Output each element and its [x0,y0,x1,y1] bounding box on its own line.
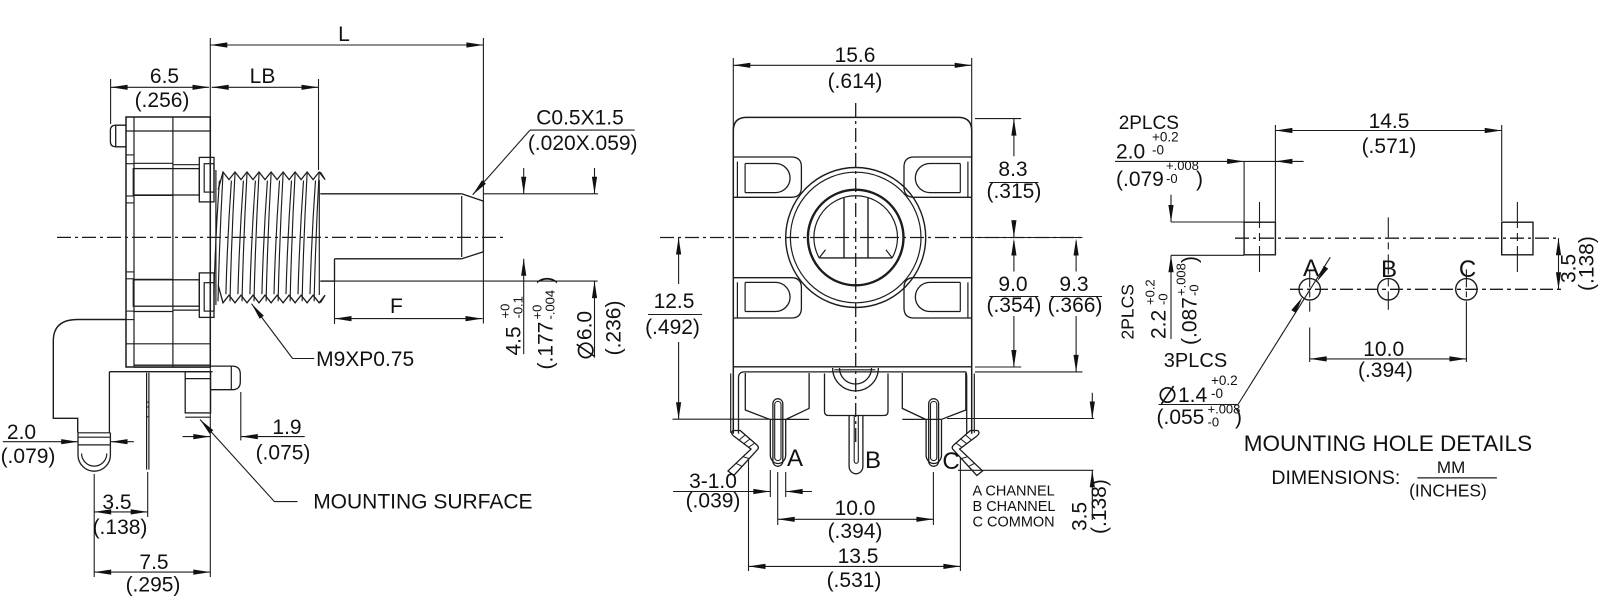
dimension 10.0 front [777,472,779,525]
pad row centerline [1235,237,1559,239]
side mounting tab [211,366,240,390]
side body rivet bump [110,125,126,147]
svg-text:): ) [1196,168,1203,191]
svg-text:(.531): (.531) [827,569,882,592]
svg-text:4.5: 4.5 [503,326,526,355]
window lower-right [904,278,971,318]
dimension 8.3 [975,118,1021,120]
svg-text:2.2: 2.2 [1148,310,1171,339]
svg-text:(.295): (.295) [126,574,181,597]
side view centerline [57,236,505,238]
svg-text:C: C [942,448,959,475]
pad left [1244,222,1275,255]
front view horizontal centerline [660,237,1085,239]
thread callout M9XP0.75 [252,304,293,359]
svg-text:8.3: 8.3 [998,158,1027,181]
svg-text:(.138): (.138) [1576,236,1598,291]
svg-text:(.571): (.571) [1362,135,1417,158]
svg-text:(.354): (.354) [986,294,1041,317]
terminal tab C [902,373,966,420]
bushing circle outer [786,168,926,308]
svg-text:9.0: 9.0 [998,273,1027,296]
svg-text:(.138): (.138) [93,516,148,539]
svg-text:F: F [390,295,403,318]
hole C crosshair [1465,269,1467,311]
svg-text:7.5: 7.5 [139,551,168,574]
center pin side [146,373,148,470]
svg-text:9.3: 9.3 [1059,273,1088,296]
svg-text:C: C [1459,256,1476,283]
svg-text:C COMMON: C COMMON [973,514,1055,530]
svg-text:MOUNTING HOLE DETAILS: MOUNTING HOLE DETAILS [1244,431,1532,456]
dimension 13.5 [748,458,750,571]
dimension F [334,262,336,324]
center tab [825,374,889,416]
bushing circle inner [790,172,921,303]
svg-text:(.394): (.394) [828,520,883,543]
svg-text:3PLCS: 3PLCS [1164,350,1227,372]
svg-text:B: B [1381,256,1397,283]
svg-text:B: B [865,447,881,474]
dimension dia 6.0 [483,193,598,195]
svg-text:(.020X.059): (.020X.059) [528,132,638,155]
svg-text:(.177: (.177 [535,322,558,370]
svg-text:(.079: (.079 [1116,168,1164,191]
dimension L [209,38,211,117]
svg-text:DIMENSIONS:: DIMENSIONS: [1271,467,1400,489]
svg-text:14.5: 14.5 [1369,110,1410,133]
svg-text:(.492): (.492) [645,316,700,339]
window lower-left [734,278,802,318]
svg-text:A CHANNEL: A CHANNEL [973,484,1055,500]
svg-text:1.4: 1.4 [1178,384,1208,407]
svg-text:13.5: 13.5 [838,545,879,568]
svg-text:(.087: (.087 [1179,297,1202,345]
front body outline [733,117,971,433]
dimension 4.5 with tolerance [523,168,525,194]
pin B [849,416,863,474]
pad right crosshair [1516,202,1518,273]
window upper-left [734,157,802,197]
chamfer callout C0.5X1.5 [473,130,530,195]
shaft outline [320,193,461,195]
threaded bushing M9 [218,172,325,190]
svg-text:(.614): (.614) [828,70,883,93]
svg-text:-0: -0 [1187,284,1202,296]
dimension 3-1.0 pins [769,470,771,497]
svg-text:(.079): (.079) [1,445,56,468]
dimension 2.2 pad [1171,221,1244,223]
dimension 10.0 holes [1309,328,1311,363]
svg-text:(.075): (.075) [256,442,311,465]
front body bottom line [733,366,971,368]
bent leg bracket [53,320,126,433]
svg-text:(.315): (.315) [986,180,1041,203]
svg-text:): ) [535,277,558,284]
svg-text:3.5: 3.5 [102,491,131,514]
svg-text:-0: -0 [1166,171,1178,186]
svg-text:L: L [338,23,350,46]
svg-text:A: A [787,445,803,472]
svg-text:2.0: 2.0 [7,421,36,444]
terminal block under body [134,364,211,366]
dimension 3.5 front [947,418,1094,420]
pcb standoff block [185,372,210,413]
hole A crosshair [1309,269,1311,311]
svg-text:(.138): (.138) [1088,479,1111,534]
svg-text:MM: MM [1437,458,1465,477]
window upper-right [904,157,971,197]
svg-text:-0: -0 [1152,143,1164,158]
shaft flat and slot [819,257,892,259]
dimension 14.5 [1501,125,1503,221]
dimension 12.5 [678,238,680,285]
svg-text:C0.5X1.5: C0.5X1.5 [536,107,624,130]
dimension 9.0 [975,366,1021,368]
side view body outline [126,117,210,367]
bent foot right [952,431,982,476]
svg-text:B CHANNEL: B CHANNEL [973,499,1056,515]
svg-text:(.039): (.039) [686,490,741,513]
svg-text:): ) [1235,406,1242,429]
upper clip [133,162,173,164]
dimension 9.3 [975,237,1083,239]
svg-text:-.004: -.004 [543,290,558,320]
svg-text:(.366): (.366) [1048,294,1103,317]
leg foot [78,432,110,434]
hole B [1378,279,1399,300]
pad left crosshair [1259,202,1261,273]
lower clip [133,311,173,313]
svg-text:): ) [1179,256,1202,263]
svg-text:15.6: 15.6 [835,44,876,67]
svg-text:10.0: 10.0 [1363,338,1404,361]
dimension 3.5 holes [1558,238,1560,289]
svg-text:(.256): (.256) [135,89,190,112]
svg-text:A: A [1303,255,1319,282]
svg-text:-0: -0 [1208,415,1220,430]
dimension 1.9 tab [240,392,242,440]
center arch [833,368,879,391]
svg-text:12.5: 12.5 [654,290,695,313]
svg-text:10.0: 10.0 [835,497,876,520]
hole row line [1290,288,1565,290]
dimension 3.5 pin [93,474,95,577]
dimension 7.5 [209,117,211,577]
svg-text:1.9: 1.9 [272,416,301,439]
front view vertical centerline [855,103,857,446]
dimension 15.6 [732,58,734,130]
dimension 2.0 foot [3,441,78,443]
bent foot left [728,431,758,476]
svg-text:(.055: (.055 [1157,406,1205,429]
mounting surface callout [200,420,298,502]
terminal tab A [745,373,809,420]
hole A [1299,279,1320,300]
hole C [1456,279,1477,300]
leg back edge [108,372,110,433]
shaft circle [808,190,904,286]
shaft chamfer circle [814,196,898,258]
svg-text:6.0: 6.0 [574,311,597,340]
svg-text:2.0: 2.0 [1116,141,1145,164]
svg-text:2PLCS: 2PLCS [1117,284,1137,339]
svg-text:(INCHES): (INCHES) [1409,481,1487,501]
svg-text:6.5: 6.5 [150,65,179,88]
pin A [773,399,783,467]
bushing face [215,170,217,305]
svg-text:M9XP0.75: M9XP0.75 [316,348,414,371]
side body left-edge steps [126,154,134,156]
dimension LB [318,79,320,170]
dimension 6.5 [110,79,112,124]
svg-text:MOUNTING SURFACE: MOUNTING SURFACE [313,491,532,514]
hole B crosshair [1387,217,1389,309]
pin C [929,399,939,467]
svg-text:LB: LB [250,65,276,88]
svg-text:(.236): (.236) [603,301,626,356]
svg-text:-0: -0 [1211,386,1223,401]
svg-text:(.394): (.394) [1358,359,1413,382]
pad right [1502,222,1533,255]
skirt top edge [739,372,967,378]
svg-text:-0.1: -0.1 [511,296,526,318]
svg-text:-0: -0 [1156,293,1171,305]
